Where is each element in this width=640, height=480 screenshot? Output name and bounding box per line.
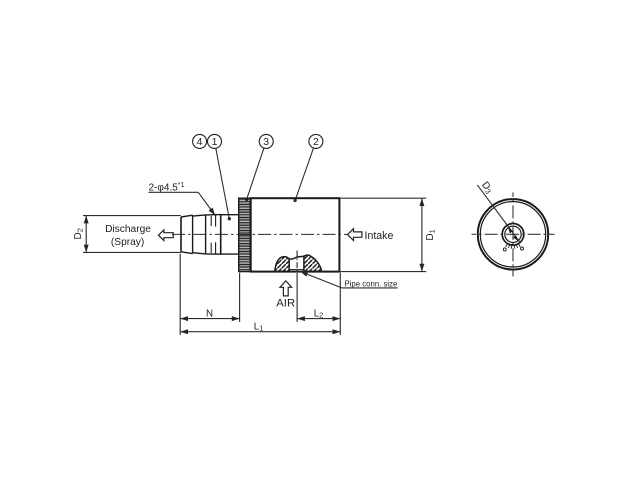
svg-text:Discharge: Discharge [105, 224, 151, 235]
extension line air center [296, 273, 298, 322]
air port centerline [296, 251, 298, 274]
svg-text:3: 3 [263, 136, 269, 148]
D3 leader line [477, 185, 519, 242]
end view vertical centerline [512, 192, 514, 276]
extension lines D1 [340, 198, 426, 271]
extension line body right [339, 273, 341, 335]
svg-text:AIR: AIR [276, 298, 295, 310]
balloon 4 [193, 134, 207, 148]
AIR arrow [280, 281, 292, 296]
nozzle collar section [221, 215, 240, 254]
svg-text:L2: L2 [314, 308, 324, 319]
svg-text:D1: D1 [425, 229, 437, 240]
small hole right [521, 247, 524, 250]
svg-text:(Spray): (Spray) [111, 237, 144, 248]
svg-text:Pipe conn. size: Pipe conn. size [345, 279, 398, 288]
end view rim inner circle [480, 202, 545, 267]
svg-text:D2: D2 [73, 228, 85, 239]
barb cone 2 [193, 215, 206, 254]
air port right lobe [304, 255, 322, 271]
balloon 2 [309, 134, 323, 148]
Discharge (Spray) label [105, 224, 151, 248]
hose barb tip [180, 217, 182, 252]
svg-text:L1: L1 [254, 322, 264, 333]
leader balloon 3 [245, 148, 264, 201]
D3 arrowheads [507, 227, 513, 234]
extension line knurl left [239, 273, 241, 322]
dimension D2 [73, 216, 89, 253]
discharge open arrow [158, 230, 173, 241]
svg-text:Intake: Intake [365, 230, 394, 242]
end view hole outer circle [502, 224, 524, 246]
balloon 3 [259, 134, 273, 148]
extension lines D2 [83, 216, 181, 253]
dimension L1 [180, 322, 340, 335]
main body [251, 198, 340, 271]
dimension N [180, 308, 239, 321]
dimension L2 [297, 308, 340, 321]
dimension D1 [419, 198, 436, 271]
label 2-phi4.5 [149, 182, 218, 217]
small hole left [503, 248, 506, 251]
knurled ring [239, 198, 251, 271]
serration ticks below hole [506, 244, 520, 249]
air port hole bottom edge [289, 269, 304, 271]
end view hole inner circle [505, 226, 521, 242]
svg-text:2: 2 [313, 136, 319, 148]
extension line barb tip [179, 254, 181, 335]
leader balloon 1 [216, 148, 231, 220]
air port break line over hole [289, 256, 304, 259]
leader balloon 2 [293, 148, 313, 202]
end view horizontal centerline [472, 233, 555, 235]
intake open arrow [348, 229, 362, 241]
pipe conn size leader [299, 269, 398, 288]
balloon 1 [208, 134, 222, 148]
svg-text:N: N [206, 308, 213, 319]
air port left lobe [275, 257, 290, 272]
svg-text:4: 4 [197, 136, 203, 148]
centerline main [172, 233, 347, 235]
barb thread section [206, 214, 221, 254]
barb cone 1 [181, 215, 193, 253]
end view outer circle [478, 199, 548, 269]
svg-text:1: 1 [212, 136, 218, 148]
